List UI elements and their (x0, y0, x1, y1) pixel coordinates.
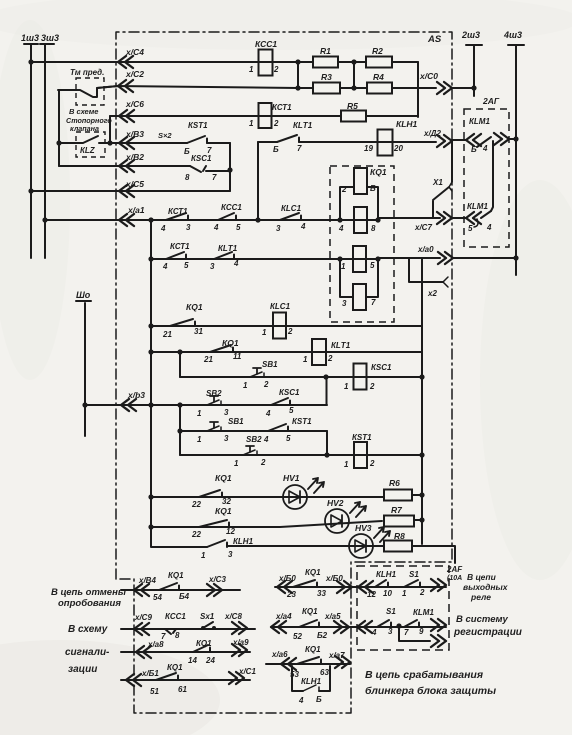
svg-text:2: 2 (369, 382, 375, 391)
svg-text:КSТ1: КSТ1 (292, 417, 312, 426)
svg-text:R1: R1 (320, 46, 331, 56)
relay coil KLH1 (378, 130, 393, 156)
svg-text:12: 12 (226, 527, 235, 536)
svg-text:23: 23 (286, 590, 296, 599)
contact KQ1 (51-61) (156, 673, 176, 680)
connector arrow x/C3 (207, 584, 222, 596)
svg-text:4: 4 (213, 223, 219, 232)
svg-text:КLС1: КLС1 (270, 302, 291, 311)
svg-text:61: 61 (178, 685, 187, 694)
relay coil KCT1 (259, 103, 272, 128)
relay coil KST1 (354, 442, 367, 468)
svg-text:3: 3 (342, 299, 347, 308)
svg-text:S×2: S×2 (158, 131, 172, 140)
wire to bus 2sh3 (452, 87, 474, 89)
wire riser rungs 4-6 (179, 405, 181, 455)
node KQ1 row3 right (375, 256, 380, 261)
wire x/a0 to arrow (378, 257, 440, 259)
svg-text:Б: Б (184, 147, 190, 156)
bus 1sh3 (24, 43, 38, 45)
LED HV3 (349, 534, 373, 558)
svg-text:8: 8 (175, 631, 180, 640)
svg-text:КСС1: КСС1 (221, 203, 242, 212)
LED HV2 (325, 509, 349, 533)
winding KQ1 row4 (353, 284, 366, 310)
wire x/B4 line (121, 589, 240, 591)
svg-text:4: 4 (160, 224, 166, 233)
svg-text:1: 1 (344, 382, 349, 391)
wire parallel tie left (297, 62, 299, 88)
bus 2sh3 (466, 44, 482, 46)
svg-text:1ш3: 1ш3 (21, 33, 39, 43)
connector arrow x/B0 in (277, 581, 292, 593)
svg-text:4: 4 (265, 409, 271, 418)
node rail top (148, 217, 153, 222)
svg-text:регистрации: регистрации (453, 627, 522, 638)
wire x/B0 line (275, 586, 446, 588)
svg-text:4ш3: 4ш3 (503, 30, 522, 40)
svg-text:4: 4 (162, 262, 168, 271)
svg-text:КLМ1: КLМ1 (469, 117, 490, 126)
svg-text:8: 8 (371, 224, 376, 233)
wire right drop of B3/B2 (229, 143, 231, 191)
svg-text:3: 3 (224, 408, 229, 417)
svg-text:54: 54 (153, 593, 162, 602)
wire x/B3 line (110, 142, 187, 144)
connector arrow x/C7 into 2AG (466, 212, 481, 224)
wire seal riser (326, 377, 328, 405)
svg-text:Б2: Б2 (317, 631, 328, 640)
svg-text:В цепи: В цепи (467, 572, 497, 582)
connector arrow to registration (431, 619, 446, 631)
wire rung KSC1 coil (180, 376, 326, 378)
wire KQ1 row34 bracket (340, 259, 378, 297)
LED HV1 (283, 485, 307, 509)
svg-text:7: 7 (371, 298, 376, 307)
connector arrow x/B0 out (337, 581, 352, 593)
svg-text:5: 5 (184, 261, 189, 270)
svg-text:R8: R8 (394, 531, 405, 541)
dashed box 2AG (464, 109, 509, 247)
svg-text:x/Б0: x/Б0 (325, 574, 343, 583)
svg-text:3: 3 (224, 434, 229, 443)
connector arrow x/C8 (232, 622, 247, 634)
wire row3 (340, 258, 378, 260)
svg-text:SВ2: SВ2 (246, 435, 262, 444)
svg-text:КСС1: КСС1 (165, 612, 186, 621)
svg-text:1: 1 (197, 435, 202, 444)
svg-text:1: 1 (234, 459, 239, 468)
node KLT1 drop join (255, 217, 260, 222)
svg-text:5: 5 (370, 261, 375, 270)
node rail HV1 (148, 494, 153, 499)
wire rung SB1-KST1 (180, 430, 327, 432)
svg-text:Б: Б (316, 695, 322, 704)
svg-text:R6: R6 (389, 478, 400, 488)
connector arrow x/C0 (437, 82, 452, 94)
resistor R7 (384, 516, 414, 527)
resistor R8 (384, 541, 412, 552)
svg-text:2: 2 (273, 65, 279, 74)
wire R2 right (392, 61, 418, 63)
svg-text:12: 12 (367, 590, 376, 599)
svg-text:x/С5: x/С5 (125, 179, 144, 189)
connector arrow x/C5 (119, 185, 134, 197)
connector arrow x/a5 out (334, 621, 349, 633)
svg-text:52: 52 (293, 632, 302, 641)
connector arrow branch (431, 635, 446, 647)
svg-text:В систему: В систему (456, 614, 509, 625)
svg-text:4: 4 (486, 223, 492, 232)
node regs branch (396, 623, 401, 628)
svg-text:НV3: НV3 (355, 523, 372, 533)
svg-text:КQ1: КQ1 (215, 473, 232, 483)
svg-text:КSС1: КSС1 (371, 363, 392, 372)
svg-text:1: 1 (303, 355, 308, 364)
connector arrow x/B3 (119, 137, 134, 149)
svg-text:x/С1: x/С1 (238, 667, 256, 676)
wire x/C6 to x/B3 tie (109, 116, 111, 143)
wire rung KLC1 (151, 325, 422, 327)
svg-text:КQ1: КQ1 (215, 506, 232, 516)
connector arrow into 2AF (358, 581, 373, 593)
wire to bus 4sh3 (509, 138, 516, 140)
svg-text:КQ1: КQ1 (370, 167, 387, 177)
svg-text:КLН1: КLН1 (376, 570, 397, 579)
svg-text:КSС1: КSС1 (279, 388, 300, 397)
svg-text:КLТ1: КLТ1 (331, 341, 351, 350)
contact Tm pred (in series with x/C2) (58, 86, 118, 97)
resistor R5 (341, 111, 366, 122)
wire KLM1-2 riser to x/D2 line (491, 141, 493, 211)
relay coil KLT1 (312, 339, 326, 365)
svg-text:КQ1: КQ1 (167, 663, 183, 672)
svg-text:В схему: В схему (68, 624, 108, 635)
svg-text:1: 1 (243, 381, 248, 390)
svg-text:x/С7: x/С7 (414, 223, 432, 232)
resistor R4 (367, 83, 392, 94)
connector arrow x/C6 (119, 110, 134, 122)
svg-text:22: 22 (191, 530, 201, 539)
svg-text:КLН1: КLН1 (396, 119, 418, 129)
resistor R3 (313, 83, 340, 94)
svg-text:7: 7 (297, 144, 302, 153)
svg-text:реле: реле (470, 592, 491, 602)
svg-text:S1: S1 (386, 607, 396, 616)
wire x/b3 line (85, 404, 327, 406)
svg-text:R2: R2 (372, 46, 383, 56)
contact KLZ (59, 136, 110, 143)
svg-text:4: 4 (263, 435, 269, 444)
wire right collector (417, 62, 419, 117)
svg-text:x/С0: x/С0 (419, 71, 438, 81)
node on 4sh3 (513, 136, 518, 141)
wire x/a8 line (121, 651, 250, 653)
connector arrow x/B1 (126, 674, 141, 686)
svg-text:Б4: Б4 (179, 592, 190, 601)
svg-text:КСТ1: КСТ1 (170, 242, 190, 251)
connector arrow x/a5 into 2AF (357, 621, 372, 633)
svg-text:КQ1: КQ1 (305, 568, 321, 577)
connector arrow x/a6 (281, 658, 296, 670)
wire x/C5 line (31, 190, 230, 192)
svg-text:3: 3 (388, 627, 393, 636)
test link X1 (451, 141, 453, 182)
svg-text:24: 24 (205, 656, 215, 665)
svg-text:x/В3: x/В3 (125, 129, 144, 139)
node x/a0 on 4sh3 (513, 255, 518, 260)
svg-text:x/а8: x/а8 (147, 640, 164, 649)
relay coil KCC1 (259, 50, 273, 76)
wire left column (58, 90, 60, 166)
svg-text:НV1: НV1 (283, 473, 300, 483)
svg-text:КСТ1: КСТ1 (272, 103, 292, 112)
svg-text:1: 1 (262, 328, 267, 337)
svg-text:2: 2 (369, 459, 375, 468)
wire x/C0 out (418, 87, 436, 89)
svg-text:КSТ1: КSТ1 (352, 433, 372, 442)
wire KLH1 bypass bracket (292, 666, 330, 691)
svg-text:11: 11 (233, 352, 242, 361)
winding KQ1 row3 (353, 246, 366, 272)
connector arrow x/D2 out (437, 135, 452, 147)
device boundary AS (dash-dot outline) (116, 32, 452, 713)
node seal KST1 (324, 452, 329, 457)
svg-text:5: 5 (468, 224, 473, 233)
wire KQ1 row1 bracket (340, 187, 378, 220)
svg-text:SВ1: SВ1 (228, 417, 244, 426)
svg-text:В схеме: В схеме (69, 107, 98, 116)
wire left rail (150, 220, 152, 546)
svg-text:x/Б1: x/Б1 (141, 669, 159, 678)
connector arrow x/a7 out (335, 656, 350, 668)
node rail KSC1 (419, 374, 424, 379)
wire x/a1 to KQ1 box (301, 219, 340, 221)
connector arrow x/a0 out (438, 252, 453, 264)
svg-text:x/С2: x/С2 (125, 69, 144, 79)
svg-text:x/Б0: x/Б0 (278, 574, 296, 583)
svg-text:31: 31 (194, 327, 203, 336)
svg-text:63: 63 (320, 668, 329, 677)
wire R8 to corner (412, 546, 455, 563)
svg-text:R5: R5 (347, 101, 358, 111)
svg-text:КLТ1: КLТ1 (293, 121, 313, 130)
svg-text:x/а0: x/а0 (417, 245, 434, 254)
svg-text:5: 5 (286, 434, 291, 443)
relay coil KSC1 (354, 364, 367, 390)
node KQ1 row2 left (337, 217, 342, 222)
svg-text:R4: R4 (373, 72, 384, 82)
node KSC1 join (227, 167, 232, 172)
wire KLT1 branch riser (257, 142, 259, 220)
dashed box KLZ (76, 132, 105, 157)
svg-text:20: 20 (393, 144, 403, 153)
wire x/C9 line (121, 628, 255, 630)
connector arrow to 4sh3 (494, 133, 509, 145)
svg-text:21: 21 (162, 330, 172, 339)
connector arrow x/a4 (271, 621, 286, 633)
svg-text:Б: Б (471, 145, 477, 154)
svg-text:КLМ1: КLМ1 (467, 202, 488, 211)
svg-text:1: 1 (249, 65, 254, 74)
svg-text:КLМ1: КLМ1 (413, 608, 434, 617)
wire x/a0 to 4sh3 (453, 257, 516, 259)
svg-text:КLZ: КLZ (80, 146, 96, 155)
svg-text:Шо: Шо (76, 290, 91, 300)
svg-text:7: 7 (404, 628, 409, 637)
svg-text:КQ1: КQ1 (305, 645, 321, 654)
svg-text:x/С3: x/С3 (208, 575, 226, 584)
svg-text:КLН1: КLН1 (233, 537, 254, 546)
node Sho tap (82, 402, 87, 407)
svg-text:1: 1 (341, 262, 346, 271)
wire R5 right (366, 115, 418, 117)
svg-text:В цепь отмены: В цепь отмены (51, 587, 126, 598)
svg-text:x/а1: x/а1 (127, 205, 145, 215)
svg-text:x/b3: x/b3 (127, 390, 145, 400)
svg-text:5: 5 (289, 406, 294, 415)
svg-text:3: 3 (186, 223, 191, 232)
bus 4sh3 (508, 44, 524, 46)
connector arrow x/a1 (119, 214, 134, 226)
svg-text:x/С4: x/С4 (125, 47, 144, 57)
svg-text:2: 2 (419, 588, 425, 597)
node KQ1 row3 left (337, 256, 342, 261)
svg-text:2: 2 (287, 327, 293, 336)
wire x/C4 line (31, 61, 313, 63)
connector arrow x/B4 (134, 584, 149, 596)
connector arrow x/a9 (232, 644, 247, 656)
svg-text:зации: зации (68, 664, 97, 675)
svg-text:КQ1: КQ1 (168, 571, 184, 580)
svg-text:3: 3 (210, 262, 215, 271)
connector arrow x/C4 (118, 56, 133, 68)
wire right rail (421, 258, 423, 544)
winding KQ1 row1 (354, 168, 367, 194)
wire parallel tie mid (353, 62, 355, 88)
svg-text:x/а5: x/а5 (324, 612, 341, 621)
svg-text:9: 9 (419, 627, 424, 636)
svg-text:3: 3 (276, 224, 281, 233)
wire x/B2 line (59, 165, 190, 167)
svg-text:4: 4 (298, 696, 304, 705)
svg-text:33: 33 (317, 589, 326, 598)
node junction on left column (56, 140, 61, 145)
node 1sh3 tap (28, 59, 33, 64)
svg-text:4: 4 (371, 628, 377, 637)
svg-text:2: 2 (273, 119, 279, 128)
wire KST1 drop (326, 431, 328, 455)
wire R4 right (392, 87, 418, 89)
node seal-in (323, 374, 328, 379)
svg-text:КQ1: КQ1 (186, 302, 203, 312)
connector arrow x/B2 (119, 160, 134, 172)
wire x/C2 line (97, 86, 313, 88)
svg-text:2АГ: 2АГ (482, 96, 500, 106)
svg-text:блинкера блока защиты: блинкера блока защиты (365, 685, 496, 697)
connector arrow x/D2 into 2AG (466, 134, 481, 146)
svg-text:x/а9: x/а9 (232, 638, 249, 647)
svg-text:КСТ1: КСТ1 (168, 207, 188, 216)
svg-text:КLТ1: КLТ1 (218, 244, 238, 253)
svg-text:3: 3 (228, 550, 233, 559)
node R2 left (351, 59, 356, 64)
svg-text:x/С9: x/С9 (134, 613, 152, 622)
svg-text:4: 4 (338, 224, 344, 233)
svg-text:2: 2 (327, 354, 333, 363)
svg-text:22: 22 (191, 500, 201, 509)
svg-text:КLС1: КLС1 (281, 204, 302, 213)
wire KST1 to corner (207, 142, 230, 144)
svg-text:R3: R3 (321, 72, 332, 82)
wire branch to second arrow (399, 627, 430, 641)
wire to x/C7 arrow (378, 217, 440, 219)
svg-text:32: 32 (222, 497, 231, 506)
wire row2 (340, 219, 378, 221)
svg-text:2ш3: 2ш3 (461, 30, 480, 40)
wire R1-R2 (338, 61, 366, 63)
svg-text:SВ1: SВ1 (262, 360, 278, 369)
svg-text:сигнали-: сигнали- (65, 647, 110, 658)
wire x/C6 line (110, 115, 341, 117)
wire rung KST1 coil (180, 454, 422, 456)
wire x/a0 rung from rail (151, 258, 340, 260)
connector arrow x/C9 (134, 623, 149, 635)
dashed box 2AF (357, 566, 449, 650)
svg-text:19: 19 (364, 144, 373, 153)
svg-text:КSС1: КSС1 (191, 154, 212, 163)
node rail KST1 (419, 452, 424, 457)
bus 3sh3 (40, 43, 54, 45)
wire x/a1 line (45, 219, 340, 221)
wire rung HV1 (151, 496, 384, 498)
node rail x/b3 (148, 402, 153, 407)
dashed box Tm pred (76, 78, 104, 105)
wire x/a6-x/a7 line (266, 663, 350, 665)
svg-text:x/Д2: x/Д2 (423, 129, 441, 138)
resistor R2 (366, 57, 392, 68)
svg-text:51: 51 (150, 687, 159, 696)
node 3sh3 tap (42, 217, 47, 222)
connector arrow x/b3 (121, 399, 136, 411)
svg-text:КQ1: КQ1 (302, 607, 318, 616)
svg-text:1: 1 (249, 119, 254, 128)
svg-text:Sх1: Sх1 (200, 612, 215, 621)
svg-text:5: 5 (236, 223, 241, 232)
svg-text:4: 4 (482, 144, 488, 153)
bus Sho (76, 300, 91, 302)
wire rung KLT1 coil (151, 351, 422, 353)
wire rung HV2 (151, 521, 382, 527)
svg-text:2: 2 (260, 458, 266, 467)
connector arrow x/C7 out (437, 212, 452, 224)
svg-text:1: 1 (197, 409, 202, 418)
node 1sh3 tap x/C5 (28, 188, 33, 193)
node KQ1 row2 right (375, 217, 380, 222)
svg-text:7: 7 (212, 173, 217, 182)
wire into 2AG box (452, 139, 466, 141)
svg-text:AS: AS (427, 34, 442, 45)
svg-text:КST1: КST1 (188, 121, 208, 130)
svg-text:R7: R7 (391, 505, 403, 515)
svg-text:Б: Б (273, 145, 279, 154)
node on 2sh3 (471, 85, 476, 90)
wire x/a4-x/a5 line (271, 626, 446, 628)
svg-text:В цепь срабатывания: В цепь срабатывания (365, 669, 483, 681)
svg-text:3ш3: 3ш3 (41, 33, 59, 43)
node rail HV2 (148, 524, 153, 529)
svg-text:КLН1: КLН1 (301, 677, 322, 686)
